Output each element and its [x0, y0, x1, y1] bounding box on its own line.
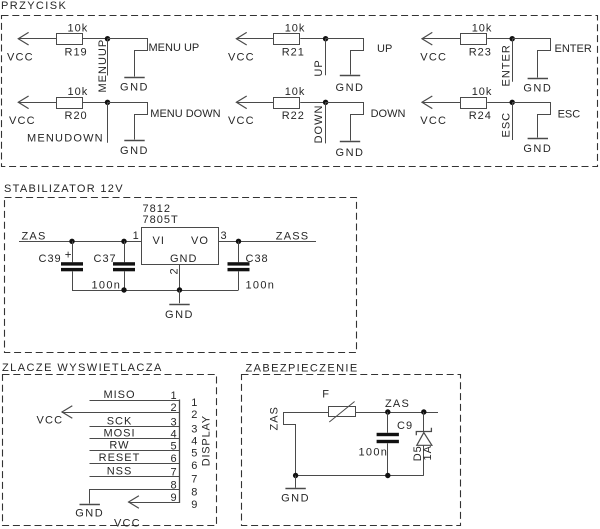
ground rail wire: [72, 290, 239, 292]
svg-text:VCC: VCC: [420, 115, 447, 127]
svg-text:PRZYCISK: PRZYCISK: [1, 0, 67, 12]
svg-text:MENUDOWN: MENUDOWN: [27, 133, 104, 145]
net stub ENTER: [512, 39, 514, 82]
svg-text:7: 7: [191, 474, 197, 486]
capacitor C9: [387, 412, 389, 433]
junction dot at C37: [121, 239, 126, 244]
capacitor C38: [238, 241, 240, 262]
svg-text:VCC: VCC: [9, 115, 36, 127]
wire ZAS input to regulator pin 1: [19, 241, 141, 243]
wire RESET to pin 6: [90, 463, 180, 465]
VCC supply arrow for R23: [422, 32, 432, 45]
svg-text:7: 7: [170, 466, 176, 478]
junction dot at ESC node: [510, 100, 515, 105]
net stub DOWN: [325, 102, 327, 143]
svg-text:VCC: VCC: [228, 52, 255, 64]
capacitor C39 (electrolytic): [72, 241, 74, 262]
svg-text:R24: R24: [469, 110, 492, 122]
wire junction to button DOWN: [326, 103, 364, 141]
svg-text:MENU DOWN: MENU DOWN: [150, 108, 220, 120]
svg-text:DISPLAY: DISPLAY: [201, 415, 213, 466]
junction dot ZAS/C9: [385, 409, 390, 414]
svg-text:2: 2: [168, 268, 180, 274]
svg-text:GND: GND: [336, 82, 365, 94]
junction dot at C38: [236, 239, 241, 244]
svg-text:10k: 10k: [285, 86, 306, 98]
wire VCC to R22: [236, 102, 273, 104]
svg-text:GND: GND: [336, 147, 365, 159]
net stub MENUUP: [107, 39, 109, 76]
VCC supply arrow for R22: [236, 96, 246, 109]
svg-text:1: 1: [170, 390, 176, 402]
svg-text:10k: 10k: [472, 86, 493, 98]
junction dot at C39: [69, 239, 74, 244]
ground symbol (protection): [285, 488, 305, 490]
wire VCC to R20: [18, 102, 56, 104]
dashed frame ZLACZE WYSWIETLACZA: [3, 375, 217, 526]
junction dot at MENU UP node: [105, 36, 110, 41]
svg-text:MOSI: MOSI: [103, 428, 135, 440]
wire junction to button MENU UP: [108, 39, 148, 77]
diode D5 anode wire: [423, 412, 425, 432]
resistor R24: [461, 98, 487, 109]
svg-text:+: +: [65, 250, 72, 262]
svg-text:DOWN: DOWN: [313, 105, 325, 144]
svg-text:7812: 7812: [143, 203, 171, 215]
junction dot at UP node: [323, 36, 328, 41]
junction dot rail/GND: [293, 473, 298, 478]
ground rail (protection): [296, 475, 424, 477]
svg-text:GND: GND: [523, 143, 552, 155]
svg-text:ZABEZPIECZENIE: ZABEZPIECZENIE: [246, 363, 359, 375]
svg-text:ZAS: ZAS: [22, 230, 47, 242]
ground symbol (ESC): [528, 138, 548, 140]
wire RW to pin 5: [90, 450, 180, 452]
svg-text:C37: C37: [94, 253, 117, 265]
svg-text:F: F: [322, 388, 329, 400]
svg-text:GND: GND: [120, 145, 149, 157]
svg-text:3: 3: [170, 416, 176, 428]
net stub ESC: [512, 102, 514, 140]
svg-text:ENTER: ENTER: [500, 44, 512, 86]
wire NSS to pin 7: [90, 476, 180, 478]
wire VCC to pin 2: [62, 412, 179, 414]
svg-text:GND: GND: [75, 508, 104, 520]
junction dot at MENU DOWN node: [105, 100, 110, 105]
svg-text:C9: C9: [397, 420, 413, 432]
svg-text:MENUUP: MENUUP: [97, 39, 109, 93]
wire SCK to pin 3: [90, 426, 180, 428]
svg-text:3: 3: [191, 424, 197, 436]
svg-text:VCC: VCC: [37, 414, 64, 426]
svg-text:3: 3: [221, 230, 227, 242]
svg-text:100n: 100n: [246, 279, 276, 291]
svg-text:VCC: VCC: [7, 52, 34, 64]
svg-text:GND: GND: [281, 492, 310, 504]
fuse diagonal stroke: [329, 402, 354, 423]
svg-text:R20: R20: [65, 110, 88, 122]
regulator GND pin wire: [179, 265, 181, 290]
wire VCC to R23: [422, 38, 461, 40]
svg-text:NSS: NSS: [107, 466, 133, 478]
svg-text:C39: C39: [39, 253, 62, 265]
svg-text:C38: C38: [246, 253, 269, 265]
svg-text:ESC: ESC: [500, 112, 512, 138]
svg-text:UP: UP: [313, 59, 325, 76]
ground stub (protection): [295, 476, 297, 488]
junction dot rail/regulator: [177, 287, 182, 292]
svg-text:4: 4: [191, 436, 197, 448]
ground symbol (stabilizer): [169, 304, 189, 306]
svg-text:10k: 10k: [472, 23, 493, 35]
svg-text:GND: GND: [165, 309, 194, 321]
svg-text:9: 9: [191, 499, 197, 511]
svg-text:GND: GND: [523, 82, 552, 94]
junction dot at ENTER node: [510, 36, 515, 41]
wire R19 to junction: [83, 38, 108, 40]
svg-text:ZAS: ZAS: [385, 398, 410, 410]
svg-text:1: 1: [191, 397, 197, 409]
resistor R23: [461, 34, 487, 45]
wire R22 to junction: [300, 102, 325, 104]
wire VCC to R24: [422, 102, 461, 104]
wire VCC to pin 9: [129, 502, 180, 504]
svg-text:6: 6: [191, 460, 197, 472]
svg-text:2: 2: [191, 409, 197, 421]
svg-text:R21: R21: [282, 47, 305, 59]
svg-text:9: 9: [170, 492, 176, 504]
dashed frame PRZYCISK: [2, 16, 598, 167]
ground symbol (UP): [340, 75, 360, 77]
svg-text:VI: VI: [153, 235, 165, 247]
svg-text:5: 5: [170, 440, 176, 452]
svg-text:5: 5: [191, 448, 197, 460]
wire junction to button UP: [326, 39, 364, 75]
VCC supply arrow for R20: [18, 96, 28, 109]
wire R21 to junction: [300, 38, 325, 40]
VCC supply arrow for R21: [236, 32, 246, 45]
svg-text:GND: GND: [120, 81, 149, 93]
svg-text:VCC: VCC: [420, 52, 447, 64]
wire VCC to R19: [18, 38, 56, 40]
svg-text:8: 8: [191, 487, 197, 499]
net stub ZAS (protection input): [284, 413, 296, 476]
svg-text:1A: 1A: [422, 445, 434, 460]
ground stub (stabilizer): [179, 290, 181, 303]
net stub UP: [325, 39, 327, 75]
diode D5 lower wire: [423, 445, 425, 475]
wire regulator VO to ZASS: [218, 241, 316, 243]
svg-text:VCC: VCC: [114, 517, 141, 529]
wire MISO to pin 1: [90, 400, 180, 402]
svg-text:ZASS: ZASS: [276, 230, 310, 242]
display connector body line: [179, 400, 181, 504]
ground symbol (display pin 8): [80, 504, 100, 506]
wire MOSI to pin 4: [90, 438, 180, 440]
VCC supply arrow for R19: [18, 32, 28, 45]
wire junction to button ESC: [513, 103, 551, 138]
svg-text:VCC: VCC: [228, 115, 255, 127]
resistor R19: [57, 34, 83, 45]
diode D5 triangle: [417, 433, 432, 446]
junction dot ZAS/D5: [421, 409, 426, 414]
svg-text:UP: UP: [377, 43, 392, 55]
svg-text:MISO: MISO: [103, 389, 135, 401]
svg-text:GND: GND: [170, 253, 197, 265]
svg-text:6: 6: [170, 453, 176, 465]
svg-text:4: 4: [170, 428, 176, 440]
capacitor C37: [124, 241, 126, 262]
ground symbol (MENU UP): [124, 77, 144, 79]
svg-text:RESET: RESET: [99, 452, 141, 464]
ground symbol (ENTER): [528, 78, 548, 80]
wire ZAS to fuse F: [283, 412, 328, 414]
wire pin 8 to ground: [90, 490, 180, 504]
svg-text:100n: 100n: [92, 279, 122, 291]
ground symbol (DOWN): [340, 141, 360, 143]
junction dot rail/C37: [121, 287, 126, 292]
svg-text:ZLACZE WYSWIETLACZA: ZLACZE WYSWIETLACZA: [2, 362, 163, 374]
svg-text:STABILIZATOR 12V: STABILIZATOR 12V: [4, 183, 124, 195]
VCC supply arrow (display pin 9): [129, 496, 139, 509]
svg-text:ZAS: ZAS: [269, 406, 281, 430]
regulator U1 7812/7805T body: [142, 228, 219, 265]
resistor R21: [274, 34, 300, 45]
svg-text:DOWN: DOWN: [371, 108, 406, 120]
svg-text:MENU UP: MENU UP: [149, 42, 200, 54]
wire junction to button ENTER: [513, 39, 551, 78]
svg-text:R19: R19: [65, 47, 88, 59]
net stub MENUDOWN: [107, 102, 109, 142]
junction dot rail/C9: [385, 473, 390, 478]
resistor R22: [274, 98, 300, 109]
svg-text:10k: 10k: [285, 23, 306, 35]
ground symbol (MENU DOWN): [124, 140, 144, 142]
resistor R20: [57, 98, 83, 109]
svg-text:R22: R22: [282, 110, 305, 122]
svg-text:ESC: ESC: [558, 109, 581, 121]
junction dot at DOWN node: [323, 100, 328, 105]
wire junction to button MENU DOWN: [108, 103, 148, 140]
fuse F body: [329, 407, 356, 417]
dashed frame ZABEZPIECZENIE: [242, 375, 461, 526]
svg-text:1: 1: [133, 230, 139, 242]
svg-text:RW: RW: [109, 440, 129, 452]
wire R20 to junction: [83, 102, 108, 104]
wire R24 to junction: [487, 102, 512, 104]
svg-text:10k: 10k: [68, 86, 89, 98]
wire R23 to junction: [487, 38, 512, 40]
VCC supply arrow for R24: [422, 96, 432, 109]
svg-text:7805T: 7805T: [143, 214, 179, 226]
svg-text:100n: 100n: [359, 447, 389, 459]
VCC supply arrow (display pin 2): [62, 406, 72, 419]
wire fuse to ZAS node: [355, 412, 438, 414]
diode D5 cathode bar: [416, 428, 431, 436]
svg-text:R23: R23: [469, 47, 492, 59]
wire VCC to R21: [236, 38, 273, 40]
svg-text:8: 8: [170, 479, 176, 491]
dashed frame STABILIZATOR: [5, 198, 357, 353]
svg-text:VO: VO: [191, 235, 209, 247]
svg-text:ENTER: ENTER: [555, 43, 592, 55]
svg-text:10k: 10k: [68, 23, 89, 35]
svg-text:SCK: SCK: [107, 416, 133, 428]
svg-text:2: 2: [170, 402, 176, 414]
